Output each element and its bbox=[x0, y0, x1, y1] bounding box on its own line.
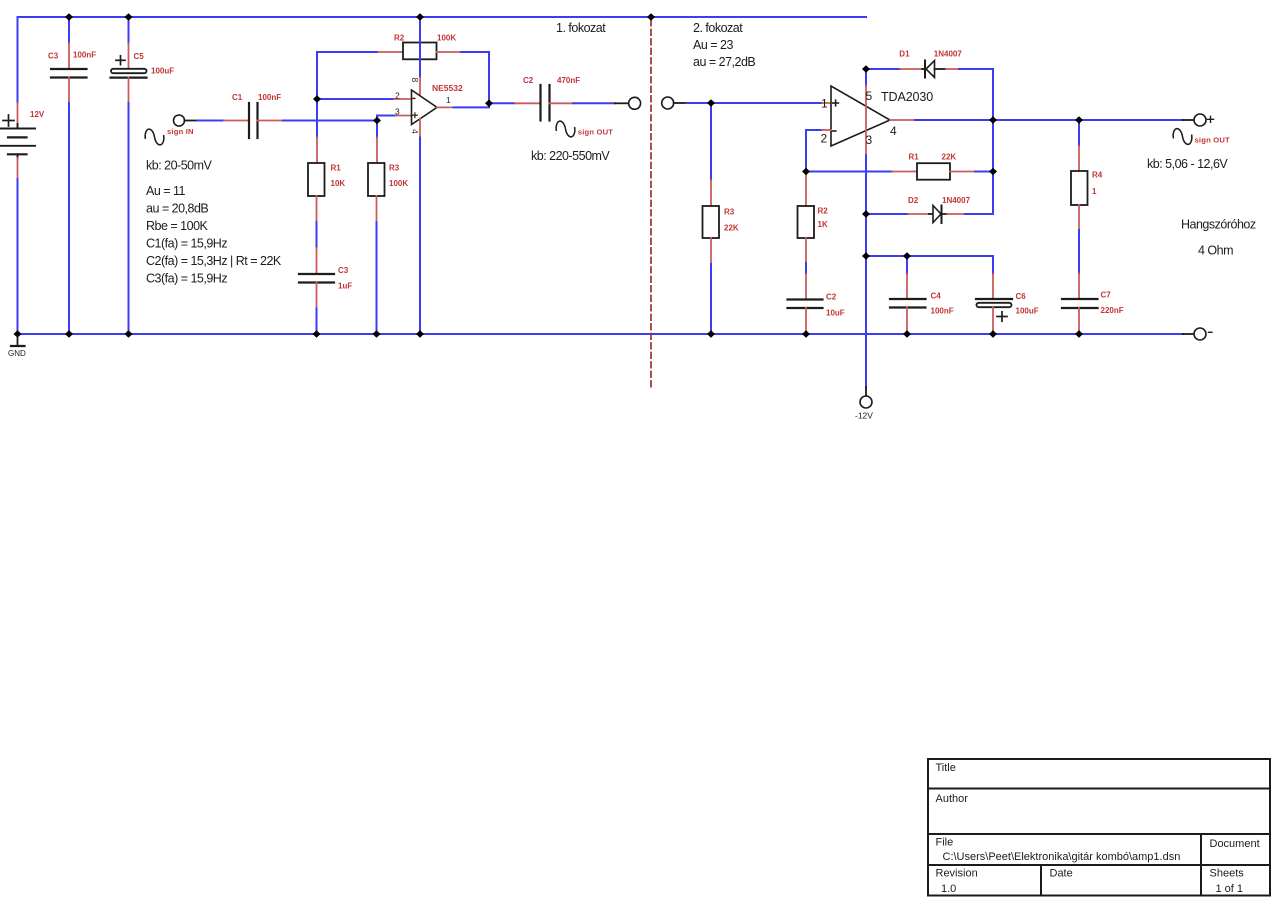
wire pin1 out bbox=[437, 106, 454, 108]
wire stage2 input to pin1 bbox=[686, 102, 822, 104]
svg-text:D1: D1 bbox=[899, 50, 910, 59]
capacitor C2 470nF plates bbox=[539, 85, 541, 121]
svg-text:470nF: 470nF bbox=[557, 76, 580, 85]
svg-text:Sheets: Sheets bbox=[1210, 868, 1245, 880]
wire C1 to node bbox=[283, 120, 377, 122]
wire input to C1 bbox=[198, 120, 225, 122]
junction ground rail / C2 10uF bbox=[802, 330, 810, 338]
capacitor C6 100uF plates bbox=[976, 298, 1012, 300]
wire bottom GND rail bbox=[18, 333, 1184, 335]
svg-text:C7: C7 bbox=[1101, 291, 1112, 300]
svg-text:1N4007: 1N4007 bbox=[942, 196, 971, 205]
wire feedback vertical bbox=[316, 52, 318, 138]
svg-text:Date: Date bbox=[1050, 868, 1073, 880]
diode D1 1N4007 symbol bbox=[924, 61, 926, 78]
port -12V bbox=[860, 396, 872, 408]
wire output node to R4 bbox=[1078, 120, 1080, 146]
svg-text:1N4007: 1N4007 bbox=[934, 50, 963, 59]
port stage2 input bbox=[662, 97, 674, 109]
svg-text:-12V: -12V bbox=[855, 411, 873, 421]
svg-text:Revision: Revision bbox=[936, 868, 978, 880]
svg-text:12V: 12V bbox=[30, 110, 45, 119]
junction ground rail / C6 bbox=[989, 330, 997, 338]
svg-text:1. fokozat: 1. fokozat bbox=[556, 21, 606, 35]
wire D1 right to output column bbox=[946, 68, 959, 70]
capacitor C3 100nF plates bbox=[51, 68, 87, 70]
wire D1 left bbox=[866, 68, 900, 70]
svg-text:1: 1 bbox=[1092, 187, 1097, 196]
junction pin 2 node bbox=[313, 95, 321, 103]
capacitor C2 10uF plates bbox=[788, 298, 823, 300]
svg-text:NE5532: NE5532 bbox=[432, 83, 463, 93]
junction +12V rail / opamp pin 8 bbox=[416, 13, 424, 21]
junction -12V / bypass line bbox=[862, 252, 870, 260]
resistor R2 1K body bbox=[798, 206, 815, 238]
capacitor C4 100nF plates bbox=[890, 298, 926, 300]
svg-text:1: 1 bbox=[446, 95, 451, 105]
svg-text:100K: 100K bbox=[437, 34, 456, 43]
svg-text:R3: R3 bbox=[724, 208, 735, 217]
op-amp U2 TDA2030 body bbox=[831, 86, 890, 146]
svg-text:1: 1 bbox=[821, 97, 828, 111]
junction input node / R3 bbox=[373, 117, 381, 125]
port sign OUT stage1 bbox=[629, 97, 641, 109]
opamp plus minus marks bbox=[413, 114, 418, 116]
svg-text:sign OUT: sign OUT bbox=[578, 128, 614, 137]
wire C3 1uF to ground rail bbox=[316, 283, 318, 309]
svg-text:Au = 23: Au = 23 bbox=[693, 38, 733, 52]
wire opamp pin 4 to ground rail bbox=[419, 119, 421, 138]
svg-text:C6: C6 bbox=[1016, 292, 1027, 301]
wire feedback right to output node bbox=[437, 51, 462, 53]
svg-text:C2: C2 bbox=[523, 76, 534, 85]
svg-text:1 of 1: 1 of 1 bbox=[1216, 883, 1244, 895]
port sign IN bbox=[174, 115, 185, 126]
svg-text:sign OUT: sign OUT bbox=[1195, 136, 1231, 145]
svg-text:sign IN: sign IN bbox=[167, 127, 194, 136]
wire opamp pin 8 supply bbox=[419, 17, 421, 78]
svg-text:Rbe = 100K: Rbe = 100K bbox=[146, 219, 209, 233]
TDA plus minus marks bbox=[833, 102, 839, 104]
junction ground rail / C4 bbox=[903, 330, 911, 338]
wire R3 to ground rail bbox=[376, 196, 378, 222]
battery V1 12V bbox=[1, 115, 36, 158]
wire pin2 bbox=[317, 98, 394, 100]
svg-text:GND: GND bbox=[8, 349, 26, 358]
svg-text:C:\Users\Peet\Elektronika\gitá: C:\Users\Peet\Elektronika\gitár kombó\am… bbox=[943, 851, 1181, 863]
wire D2 right bbox=[947, 213, 965, 215]
sine symbol input bbox=[144, 127, 165, 147]
svg-text:22K: 22K bbox=[942, 153, 957, 162]
wire node down to R3b bbox=[710, 103, 712, 180]
svg-text:C5: C5 bbox=[134, 52, 145, 61]
svg-text:C3: C3 bbox=[48, 52, 59, 61]
svg-text:kb: 220-550mV: kb: 220-550mV bbox=[531, 149, 610, 163]
capacitor C3 100nF branch bbox=[68, 17, 70, 43]
junction ground rail / opamp pin 4 bbox=[416, 330, 424, 338]
wire C3 to ground rail bbox=[68, 78, 70, 104]
svg-text:2: 2 bbox=[395, 91, 400, 101]
wire C5 to ground rail bbox=[128, 78, 130, 103]
junction -12V / D2 bbox=[862, 210, 870, 218]
svg-text:4 Ohm: 4 Ohm bbox=[1198, 244, 1233, 258]
wire battery bottom bbox=[17, 158, 19, 179]
resistor R3 100K body bbox=[368, 163, 385, 196]
svg-text:100nF: 100nF bbox=[258, 93, 281, 102]
svg-text:R2: R2 bbox=[818, 207, 829, 216]
junction opamp output node bbox=[485, 100, 493, 108]
svg-text:100uF: 100uF bbox=[151, 67, 174, 76]
junction ground rail / C7 bbox=[1075, 330, 1083, 338]
svg-text:C2: C2 bbox=[826, 293, 837, 302]
junction ground rail / C5 bbox=[125, 330, 133, 338]
svg-text:220nF: 220nF bbox=[1101, 306, 1124, 315]
wire bypass line y256 bbox=[866, 255, 993, 257]
wire R1b feedback line bbox=[806, 171, 892, 173]
C1 right plate and pin bbox=[256, 103, 258, 138]
svg-text:1uF: 1uF bbox=[338, 282, 352, 291]
junction +12V rail / C3 bbox=[65, 13, 73, 21]
junction ground rail / C3 1uF bbox=[313, 330, 321, 338]
svg-text:C1(fa) = 15,9Hz: C1(fa) = 15,9Hz bbox=[146, 237, 227, 251]
svg-text:1.0: 1.0 bbox=[941, 883, 956, 895]
svg-text:2. fokozat: 2. fokozat bbox=[693, 21, 743, 35]
svg-text:C1: C1 bbox=[232, 93, 243, 102]
sine symbol out2 bbox=[1172, 127, 1193, 147]
wire C6 top bbox=[992, 256, 994, 274]
ground symbol GND bbox=[11, 334, 25, 346]
port -12V lead bbox=[865, 387, 867, 396]
svg-text:1K: 1K bbox=[818, 220, 828, 229]
wire C2 to output port bbox=[550, 102, 574, 104]
wire R1 right to output column bbox=[950, 171, 975, 173]
wire top +12V rail bbox=[18, 16, 867, 18]
separator dashed line bbox=[650, 20, 652, 390]
resistor R3 22K body bbox=[703, 206, 720, 238]
junction pin 2 node stage2 bbox=[802, 168, 810, 176]
junction stage2 input / R3 bbox=[707, 99, 715, 107]
capacitor C3 1uF plates bbox=[299, 273, 334, 275]
sine symbol out1 bbox=[555, 119, 576, 139]
resistor R4 1 body bbox=[1071, 171, 1088, 205]
op-amp U1 NE5532 body bbox=[412, 90, 438, 125]
svg-text:R1: R1 bbox=[909, 153, 920, 162]
svg-text:100K: 100K bbox=[389, 179, 408, 188]
svg-text:100nF: 100nF bbox=[73, 51, 96, 60]
svg-text:Au = 11: Au = 11 bbox=[146, 184, 186, 198]
svg-text:C3(fa) = 15,9Hz: C3(fa) = 15,9Hz bbox=[146, 272, 227, 286]
svg-text:au = 20,8dB: au = 20,8dB bbox=[146, 202, 208, 216]
svg-text:R2: R2 bbox=[394, 34, 405, 43]
resistor R2 100K body bbox=[403, 43, 437, 60]
svg-text:100uF: 100uF bbox=[1016, 307, 1039, 316]
junction +12V rail / stage divider bbox=[647, 13, 655, 21]
svg-text:3: 3 bbox=[866, 133, 873, 147]
wire battery positive branch bbox=[17, 17, 19, 103]
svg-text:8: 8 bbox=[410, 78, 420, 83]
wire D2 left bbox=[866, 213, 908, 215]
resistor R1 10K body bbox=[308, 163, 325, 196]
junction output / D1 column bbox=[989, 116, 997, 124]
svg-text:4: 4 bbox=[410, 129, 420, 134]
svg-text:kb: 20-50mV: kb: 20-50mV bbox=[146, 159, 213, 173]
wire C4 top bbox=[906, 256, 908, 274]
wire output line bbox=[890, 119, 915, 121]
svg-text:2: 2 bbox=[821, 132, 828, 146]
capacitor C5 100uF branch bbox=[128, 17, 130, 44]
svg-text:TDA2030: TDA2030 bbox=[881, 90, 933, 104]
svg-text:C4: C4 bbox=[931, 292, 942, 301]
junction bypass line / C4 bbox=[903, 252, 911, 260]
svg-text:5: 5 bbox=[866, 89, 873, 103]
diode D2 1N4007 symbol bbox=[933, 206, 941, 223]
svg-text:3: 3 bbox=[395, 107, 400, 117]
svg-text:C3: C3 bbox=[338, 266, 349, 275]
svg-text:C2(fa) = 15,3Hz | Rt = 22K: C2(fa) = 15,3Hz | Rt = 22K bbox=[146, 254, 282, 268]
port minus bbox=[1183, 333, 1194, 335]
capacitor C7 220nF plates bbox=[1062, 298, 1098, 300]
wire pin2 TDA bbox=[806, 130, 822, 172]
title block frame bbox=[928, 759, 1270, 896]
svg-text:10uF: 10uF bbox=[826, 309, 845, 318]
svg-text:Author: Author bbox=[936, 793, 969, 805]
wire R3 22K to ground rail bbox=[710, 238, 712, 264]
port sign OUT + bbox=[1194, 114, 1206, 126]
wire node jog to pin3 bbox=[377, 116, 396, 121]
svg-text:100nF: 100nF bbox=[931, 307, 954, 316]
wire node to R2 1K bbox=[805, 172, 807, 207]
wire R1 to C3 bbox=[316, 196, 318, 222]
svg-text:4: 4 bbox=[890, 124, 897, 138]
junction ground rail / C3 bbox=[65, 330, 73, 338]
junction pin 5 / D1 bbox=[862, 65, 870, 73]
svg-text:D2: D2 bbox=[908, 196, 919, 205]
wire node down to R3 bbox=[376, 121, 378, 138]
junction output column / R1 bbox=[989, 168, 997, 176]
wire feedback left bbox=[317, 51, 378, 53]
capacitor C5 100uF plates bbox=[111, 69, 147, 73]
svg-text:Document: Document bbox=[1210, 838, 1260, 850]
junction ground rail / battery / GND bbox=[14, 330, 22, 338]
wire TDA pin 5 supply and pin 3 negative supply bbox=[865, 69, 867, 86]
svg-text:File: File bbox=[936, 837, 954, 849]
capacitor C1 100nF bbox=[248, 103, 250, 138]
svg-text:R3: R3 bbox=[389, 164, 400, 173]
svg-text:kb: 5,06 - 12,6V: kb: 5,06 - 12,6V bbox=[1147, 157, 1228, 171]
junction output / R4 bbox=[1075, 116, 1083, 124]
junction ground rail / R3 22K bbox=[707, 330, 715, 338]
svg-text:Hangszóróhoz: Hangszóróhoz bbox=[1181, 218, 1256, 232]
resistor R1 22K body bbox=[917, 163, 950, 180]
svg-text:R4: R4 bbox=[1092, 171, 1103, 180]
svg-text:R1: R1 bbox=[331, 164, 342, 173]
svg-text:Title: Title bbox=[936, 762, 956, 774]
svg-text:10K: 10K bbox=[331, 179, 346, 188]
svg-text:au = 27,2dB: au = 27,2dB bbox=[693, 55, 755, 69]
junction +12V rail / C5 bbox=[125, 13, 133, 21]
svg-text:22K: 22K bbox=[724, 224, 739, 233]
junction ground rail / R3 bbox=[373, 330, 381, 338]
